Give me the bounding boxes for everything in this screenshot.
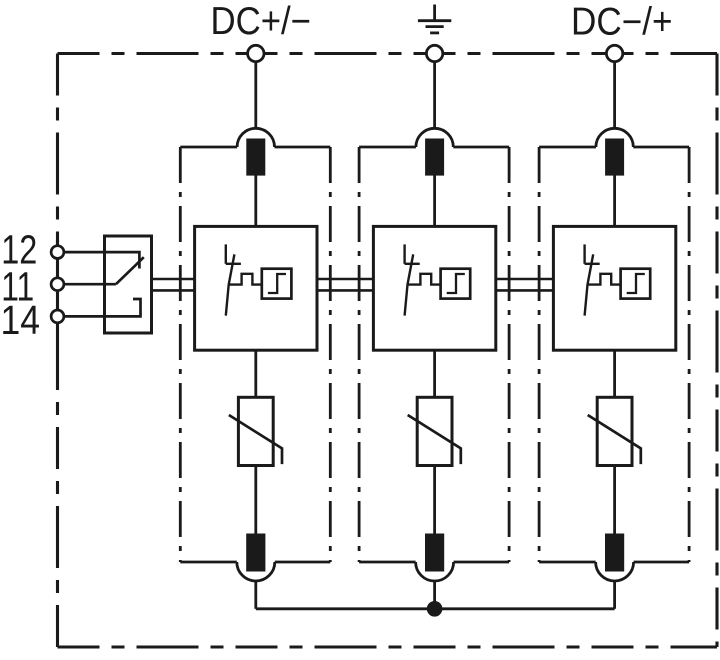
wire disconnector box to varistor (module 2) [433, 350, 436, 397]
wire terminal 11 (common) [58, 283, 116, 286]
varistor RV2 [417, 397, 452, 465]
module 2 socket arc top [416, 128, 453, 147]
disconnector box U3 [553, 226, 675, 350]
mechanical link (double line) FM to module 1 [152, 279, 195, 290]
wire terminal 14 to contact [58, 299, 141, 316]
wire varistor to plug contact bottom (module 3) [613, 466, 616, 534]
mechanical link (double line) module 1 to module 2 [317, 279, 373, 290]
plug contact bottom (module 1) [246, 534, 265, 572]
module 1 socket arc bottom [237, 562, 275, 581]
plug contact top (module 1) [246, 139, 265, 176]
svg-text:DC+/−: DC+/− [211, 0, 312, 43]
wire disconnector box to varistor (module 1) [254, 350, 257, 397]
disconnector box U1 [195, 226, 317, 350]
varistor RV1 [238, 397, 273, 465]
thermal disconnector switch symbol (module 1) [226, 244, 262, 315]
varistor RV3 [597, 397, 632, 465]
svg-text:DC−/+: DC−/+ [571, 1, 673, 44]
module 2 outline (plug-in module boundary, dash-dot) [359, 147, 509, 562]
bottom bus wire connecting all modules [256, 607, 615, 610]
terminal 14 (circle) [51, 310, 64, 323]
earth / ground symbol [418, 5, 451, 33]
module 2 socket arc bottom [416, 562, 454, 581]
module 1 socket arc top [237, 128, 274, 147]
surge-monitoring square with step response (module 3) [621, 269, 651, 299]
terminal 12 (circle) [51, 246, 64, 259]
wire plug contact to disconnector box 3 [613, 176, 616, 227]
wire disconnector box to varistor (module 3) [613, 350, 616, 397]
module 1 outline (plug-in module boundary, dash-dot) [180, 147, 330, 562]
surge-monitoring square with step response (module 1) [262, 269, 292, 299]
wire terminal 1 to module 1 socket [254, 54, 257, 130]
mechanical link (double line) module 2 to module 3 [496, 279, 554, 290]
plug contact bottom (module 3) [605, 534, 624, 572]
remote signalling contact box FM [105, 236, 152, 333]
wire varistor to plug contact bottom (module 1) [254, 466, 257, 534]
wire module 1 socket to bottom bus [254, 581, 257, 609]
wire terminal 2 to module 2 socket [433, 54, 436, 130]
wire module 3 socket to bottom bus [613, 581, 616, 609]
disconnector box U2 [373, 226, 495, 350]
module 3 socket arc bottom [596, 562, 634, 581]
wire varistor to plug contact bottom (module 2) [433, 466, 436, 534]
wire module 2 socket to bottom bus [433, 581, 436, 609]
changeover switch blade (remote signalling contact) [116, 257, 144, 284]
wire terminal 3 to module 3 socket [613, 54, 616, 130]
module 3 outline (plug-in module boundary, dash-dot) [539, 147, 689, 562]
module 3 socket arc top [596, 128, 633, 147]
thermal disconnector switch symbol (module 2) [405, 244, 441, 315]
surge-monitoring square with step response (module 2) [441, 269, 471, 299]
junction dot on bottom bus [427, 601, 443, 617]
wire plug contact to disconnector box 2 [433, 176, 436, 227]
plug contact bottom (module 2) [425, 534, 444, 572]
protection module 2 [359, 54, 509, 609]
thermal disconnector switch symbol (module 3) [585, 244, 621, 315]
svg-text:14: 14 [1, 297, 41, 343]
terminal DC+/- (circle) [248, 45, 264, 61]
plug contact top (module 3) [605, 139, 624, 176]
protection module 1 [180, 54, 330, 609]
terminal DC-/+ (circle) [606, 45, 622, 61]
protection module 3 [539, 54, 689, 609]
plug contact top (module 2) [425, 139, 444, 176]
terminal earth (circle) [426, 45, 442, 61]
wire terminal 12 to contact [58, 252, 140, 268]
wire plug contact to disconnector box 1 [254, 176, 257, 227]
terminal 11 (circle) [51, 278, 64, 291]
